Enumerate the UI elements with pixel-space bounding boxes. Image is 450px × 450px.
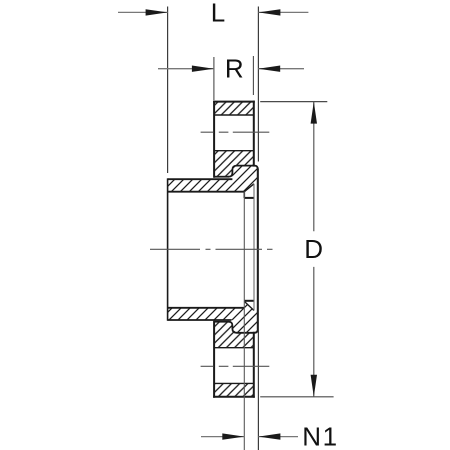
hatch: ring lower-upper section — [214, 322, 254, 348]
svg-text:N1: N1 — [302, 421, 338, 450]
svg-text:L: L — [211, 0, 225, 27]
hatch: lap flare top — [232, 166, 257, 192]
hatch: ring upper-lower section — [214, 151, 254, 177]
extension line left (L) — [167, 7, 169, 174]
gasket face line — [257, 169, 259, 329]
main centerline — [150, 248, 273, 250]
svg-text:R: R — [225, 54, 244, 84]
hub outer lines — [168, 179, 233, 320]
dimension D line and arrows — [311, 102, 317, 397]
bolt hole edges bottom — [214, 348, 254, 384]
hatch: hub wall top band — [168, 179, 233, 192]
lap step and flat bottom — [229, 322, 258, 333]
hub left face — [167, 178, 169, 320]
socket bottom steps — [243, 192, 245, 198]
hatch: lap flare bottom — [232, 301, 257, 332]
label L — [211, 0, 225, 27]
dimension D extension lines — [260, 102, 333, 397]
through bore lines — [244, 198, 254, 301]
svg-text:D: D — [304, 234, 323, 264]
dimension L line and arrows — [118, 9, 308, 15]
dimension N1 line and arrows — [201, 433, 298, 439]
label R — [225, 54, 244, 84]
hatch: ring bottom block — [214, 383, 254, 396]
extension line R right — [252, 56, 254, 95]
extension line N1 left — [243, 192, 245, 450]
bolt hole centerline bottom — [201, 365, 270, 367]
dimension R line and arrows — [158, 66, 304, 72]
extension line R left — [213, 57, 215, 100]
counterbore edge line — [253, 184, 255, 311]
bolt hole centerline top — [201, 131, 270, 133]
extension line right long — [257, 7, 259, 450]
ring outline top — [214, 102, 254, 177]
socket bore lines — [168, 192, 245, 308]
hatch: hub wall bottom band — [168, 308, 233, 320]
ring outline bottom — [214, 322, 254, 397]
hatch: ring top block — [214, 102, 254, 115]
bolt hole edges top — [214, 115, 254, 151]
lap step and flat top — [229, 166, 258, 177]
label N1 — [302, 421, 338, 450]
ring bore lines — [214, 177, 229, 322]
mouth chamfer edges — [244, 184, 254, 311]
label D — [304, 234, 323, 264]
